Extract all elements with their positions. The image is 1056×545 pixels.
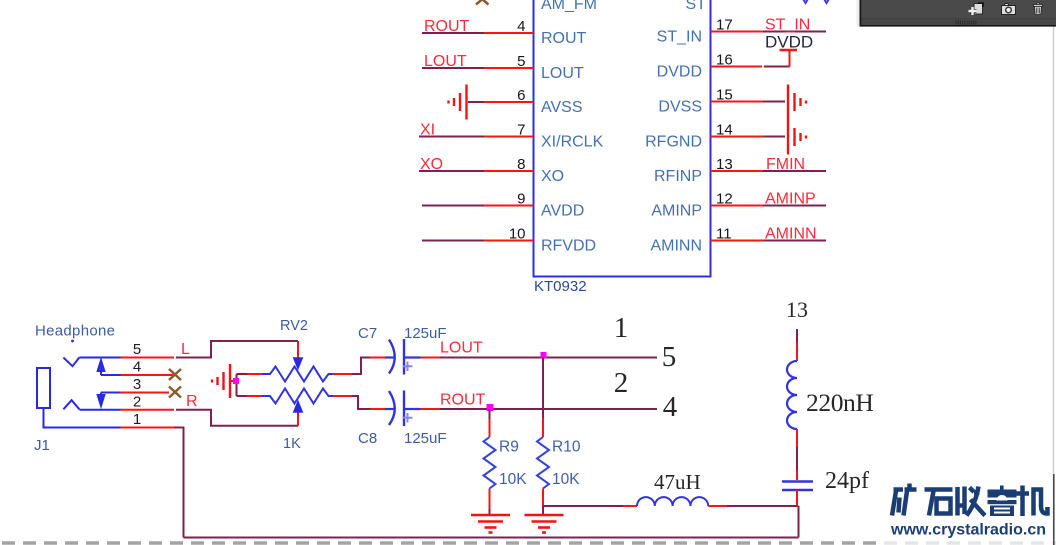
right edge line <box>1053 26 1055 545</box>
pin 17 ST_IN: wire <box>711 17 827 34</box>
potentiometer RV2 wiper (top) <box>293 341 302 369</box>
wire R10 to inductor <box>543 505 623 507</box>
svg-text:AMINP: AMINP <box>765 191 816 208</box>
resistor R9 <box>484 409 496 514</box>
toolbar grip <box>956 21 976 25</box>
svg-text:15: 15 <box>716 87 733 104</box>
svg-text:AMINP: AMINP <box>651 203 702 220</box>
svg-text:XI: XI <box>420 122 435 139</box>
svg-text:ROUT: ROUT <box>424 18 470 35</box>
jack pin 3 <box>121 376 170 393</box>
svg-text:13: 13 <box>716 156 733 173</box>
svg-text:R9: R9 <box>499 439 519 456</box>
wire inductor to output node <box>727 505 799 507</box>
svg-text:AVSS: AVSS <box>541 99 583 116</box>
svg-text:125uF: 125uF <box>404 430 447 447</box>
wire net ROUT <box>440 408 657 410</box>
svg-text:XO: XO <box>541 168 564 185</box>
capacitor C8 <box>371 391 441 427</box>
potentiometer RV2 element (bottom) <box>237 389 348 404</box>
watermark right border <box>1053 474 1055 545</box>
watermark background panel <box>878 536 1056 545</box>
IC U1 KT0932 body <box>534 0 711 277</box>
svg-text:16: 16 <box>716 52 733 69</box>
pin 12 AMINP: wire <box>711 191 827 208</box>
svg-text:7: 7 <box>517 122 525 139</box>
toolbar icon trash <box>1034 3 1043 15</box>
svg-text:5: 5 <box>662 341 677 373</box>
svg-text:www.crystalradio.cn: www.crystalradio.cn <box>890 522 1046 539</box>
inductor 220nH <box>787 361 797 429</box>
watermark logo char 4 (yin) <box>988 486 1017 517</box>
watermark logo char 1 (kuang) <box>892 484 917 516</box>
svg-text:RFINP: RFINP <box>654 168 702 185</box>
svg-text:ROUT: ROUT <box>541 30 587 47</box>
toolbar icon camera <box>1002 4 1016 15</box>
ground symbol at pin 14 (sideways) <box>788 120 806 155</box>
svg-text:L: L <box>181 341 190 358</box>
svg-text:8: 8 <box>517 156 525 173</box>
svg-text:5: 5 <box>517 53 525 70</box>
junction on LOUT <box>541 352 547 358</box>
no-ERC marker on pin 3 <box>169 387 181 398</box>
svg-text:AM_FM: AM_FM <box>541 0 597 13</box>
svg-text:XI/RCLK: XI/RCLK <box>541 134 604 151</box>
cut-off blue marks at top <box>802 0 830 3</box>
svg-text:RFGND: RFGND <box>645 134 702 151</box>
svg-text:11: 11 <box>716 226 732 243</box>
svg-text:10K: 10K <box>552 471 580 488</box>
svg-text:AVDD: AVDD <box>541 203 584 220</box>
power symbol DVDD <box>765 33 813 67</box>
svg-text:12: 12 <box>716 191 733 208</box>
wire J1 pin1 down to bottom rail <box>174 428 184 538</box>
inductor 47uH <box>623 497 727 506</box>
pin 15 DVSS: wire <box>711 87 786 104</box>
svg-text:10K: 10K <box>499 471 527 488</box>
headphone jack J1 body <box>37 340 121 428</box>
svg-text:R10: R10 <box>552 439 581 456</box>
pin 13 RFINP: wire <box>711 156 827 173</box>
jack pin 4 <box>121 359 174 376</box>
wire net R to pot wiper <box>176 410 298 426</box>
junction on ROUT <box>487 404 494 411</box>
jack pin 1 <box>121 411 175 428</box>
watermark logo char 5 (ji) <box>1017 486 1048 517</box>
jack pin 5 <box>121 341 175 358</box>
pin 7 XI: wire <box>419 122 534 139</box>
svg-text:10: 10 <box>509 226 526 243</box>
svg-text:6: 6 <box>517 87 525 104</box>
svg-text:4: 4 <box>663 391 678 423</box>
svg-text:DVDD: DVDD <box>657 64 702 81</box>
svg-text:ST: ST <box>686 0 707 13</box>
ground symbol at pot (sideways) <box>212 364 237 398</box>
wire cap to bottom rail <box>796 490 798 506</box>
wire pot to C7 <box>347 373 352 375</box>
svg-text:14: 14 <box>716 122 733 139</box>
svg-text:4: 4 <box>517 18 525 35</box>
svg-text:1: 1 <box>614 312 629 344</box>
wire stub above 220nH <box>796 329 798 361</box>
svg-text:ROUT: ROUT <box>440 392 486 409</box>
ground at R9 <box>471 515 510 533</box>
svg-text:9: 9 <box>517 191 525 208</box>
watermark logo char 3 (shou) <box>958 487 986 516</box>
svg-text:2: 2 <box>133 394 141 411</box>
svg-text:R: R <box>186 393 198 410</box>
no-ERC marker on pin 4 <box>169 369 181 380</box>
svg-text:FMIN: FMIN <box>766 156 805 173</box>
toolbar icon add-page <box>969 3 984 15</box>
wire pot to C8 <box>347 395 352 397</box>
wire bottom rail <box>184 537 799 539</box>
svg-text:3: 3 <box>133 376 141 393</box>
wire joining pot left ends <box>236 374 238 396</box>
jack switch arrow (up) <box>97 359 105 376</box>
svg-text:LOUT: LOUT <box>440 340 483 357</box>
jack switch arrow (down) <box>97 393 105 408</box>
svg-text:5: 5 <box>133 341 141 358</box>
capacitor C7 <box>371 339 441 375</box>
ground at R10 <box>525 515 564 533</box>
ground symbol at pin 15 (sideways) <box>788 85 806 120</box>
svg-text:2: 2 <box>614 367 629 399</box>
svg-text:13: 13 <box>786 297 808 322</box>
svg-text:AMINN: AMINN <box>650 238 702 255</box>
svg-text:XO: XO <box>420 156 443 173</box>
svg-text:LOUT: LOUT <box>424 53 467 70</box>
svg-text:24pf: 24pf <box>825 468 869 494</box>
pin 8 XO: wire <box>419 156 534 173</box>
wire right rail down <box>798 506 800 538</box>
svg-text:AMINN: AMINN <box>765 226 817 243</box>
svg-text:4: 4 <box>133 359 141 376</box>
svg-text:ST_IN: ST_IN <box>657 29 702 46</box>
svg-text:C8: C8 <box>358 430 377 447</box>
svg-text:Headphone: Headphone <box>35 323 115 340</box>
wire 220nH to cap <box>796 429 798 480</box>
pin 9 AVDD: wire <box>422 191 534 208</box>
svg-text:J1: J1 <box>34 437 50 454</box>
junction at pot ground <box>233 378 239 384</box>
svg-text:17: 17 <box>716 17 733 34</box>
toolbar background <box>857 0 1056 27</box>
svg-text:ST_IN: ST_IN <box>765 17 810 34</box>
potentiometer RV2 element (top) <box>237 367 348 382</box>
pin 4 ROUT: wire <box>422 18 534 35</box>
watermark logo char 2 (shi) <box>925 490 953 516</box>
pin 14 RFGND: wire <box>711 122 786 139</box>
pin 6 AVSS: wire <box>468 87 534 104</box>
svg-text:47uH: 47uH <box>654 470 701 494</box>
svg-text:LOUT: LOUT <box>541 65 584 82</box>
wire net LOUT <box>440 357 657 359</box>
svg-text:DVSS: DVSS <box>658 99 702 116</box>
ground symbol at pin 6 (sideways) <box>449 85 467 120</box>
no-ERC marker (cut off at top) <box>476 0 489 5</box>
svg-text:1: 1 <box>133 411 141 428</box>
wire net L to pot wiper <box>176 341 298 358</box>
svg-text:KT0932: KT0932 <box>534 278 587 295</box>
svg-text:220nH: 220nH <box>806 388 873 417</box>
svg-text:RFVDD: RFVDD <box>541 238 596 255</box>
pin 16 DVDD: wire <box>711 52 790 69</box>
pin 5 LOUT: wire <box>422 53 534 70</box>
bottom dashed strip <box>2 541 1056 545</box>
svg-text:RV2: RV2 <box>280 318 308 334</box>
svg-text:C7: C7 <box>358 325 377 342</box>
jack pin 2 <box>121 394 175 411</box>
pin 10 RFVDD: wire <box>422 226 534 243</box>
resistor R10 <box>537 358 549 515</box>
potentiometer RV2 wiper (bottom) <box>293 401 302 426</box>
pin 11 AMINN: wire <box>711 226 827 243</box>
capacitor 24pf <box>782 482 813 491</box>
svg-text:1K: 1K <box>283 436 301 452</box>
svg-text:DVDD: DVDD <box>765 33 813 52</box>
